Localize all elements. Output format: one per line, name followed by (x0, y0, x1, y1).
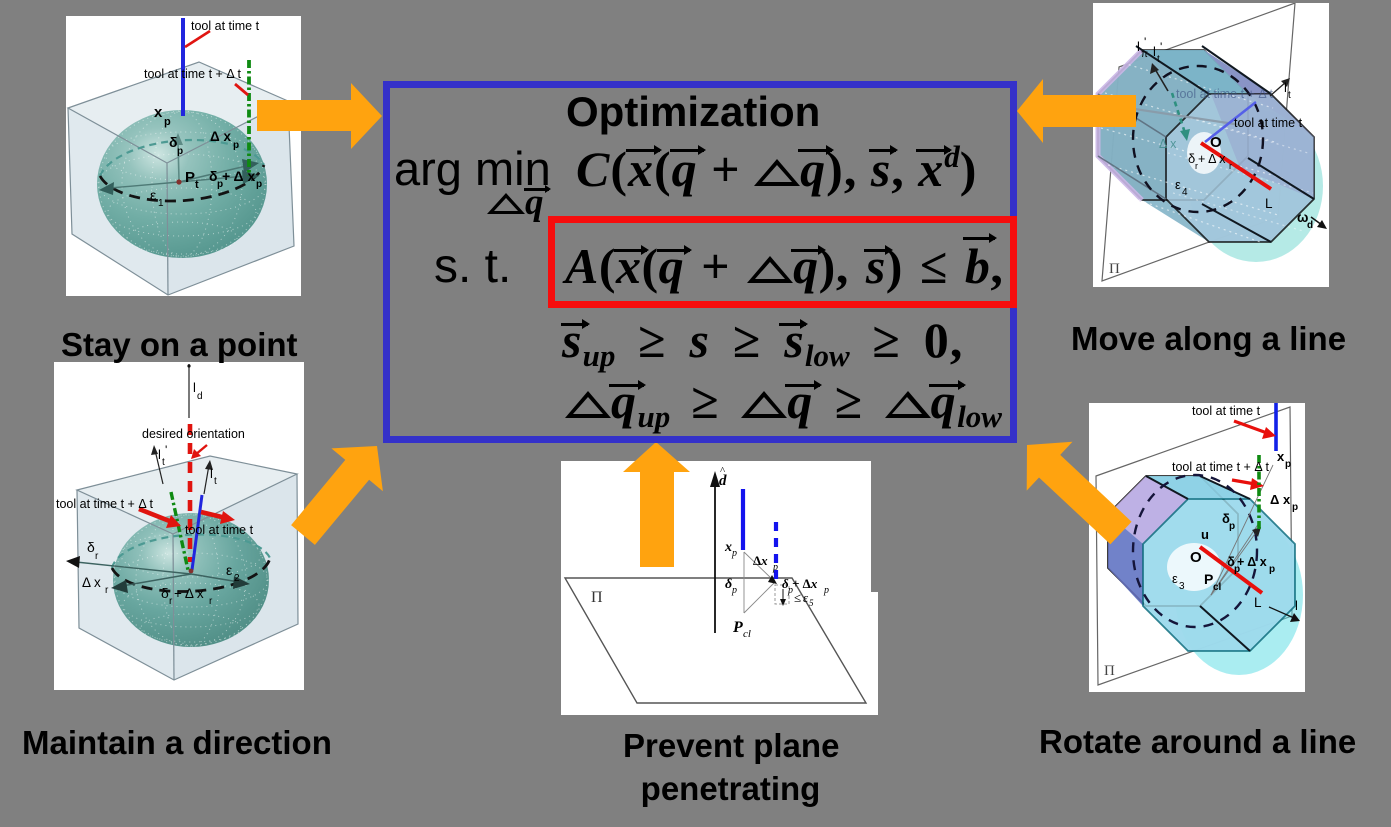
teal cylinder halo (1175, 515, 1303, 675)
stripes over front (1168, 113, 1313, 231)
green dash-dot tool line (171, 492, 188, 570)
right edge notch (871, 592, 878, 715)
thin guide lines (1211, 465, 1273, 595)
arrow up (bottom-center) (623, 442, 690, 567)
sphere (97, 110, 267, 258)
center dot (176, 179, 181, 184)
top faces (1142, 50, 1271, 94)
vector arrows over math symbols (626, 149, 660, 152)
dashed ellipse (1133, 475, 1257, 627)
blue tool line (192, 495, 202, 570)
black dashed equator ellipse front (100, 165, 264, 201)
blue tool line (1274, 403, 1278, 451)
red arrow 1 (t+dt) (139, 509, 172, 522)
small arrow near l_t (1270, 82, 1286, 96)
center dot (189, 569, 194, 574)
dashed circle (1133, 66, 1263, 212)
red pointer top (185, 31, 210, 47)
white hole (1167, 543, 1221, 591)
panel 2: maintain a direction figure (54, 362, 304, 690)
s.t. (434, 243, 511, 291)
blue tool line (181, 18, 185, 116)
blue solid line (741, 489, 745, 550)
radius arrow right (191, 574, 239, 582)
teal dashed arrow (1172, 93, 1185, 133)
radius arrow left-down (dx_r) (122, 574, 191, 586)
arrow up-right (bottom-left) (291, 446, 383, 545)
red pointer mid (235, 84, 248, 95)
caption: move along a line (1071, 322, 1346, 355)
radius arrow left (76, 562, 191, 574)
l arrow (1269, 607, 1294, 618)
blue dashed line (774, 522, 778, 583)
red dashed desired orientation line (188, 424, 193, 562)
s bounds line (562, 315, 964, 371)
plane (1102, 3, 1295, 281)
prism hull (1098, 50, 1314, 242)
cube hidden edge through sphere (167, 163, 168, 295)
cube edges (68, 62, 294, 295)
green dash-dot tool line (247, 60, 251, 176)
red arrow mid (1232, 480, 1255, 484)
plane (1096, 407, 1292, 685)
black dashed equator (112, 558, 270, 592)
radius arrow right (179, 166, 246, 182)
under: delta q vec (487, 184, 544, 221)
plane (565, 578, 866, 703)
top faces lavender (1146, 476, 1250, 499)
caption: prevent plane penetrating (623, 725, 838, 810)
caption: maintain a direction (22, 726, 332, 759)
back octagon (1108, 476, 1238, 606)
constraint line in red box (565, 241, 1003, 291)
arrow right (top-left) (257, 83, 382, 149)
cube faces (68, 62, 294, 295)
blue tool line (1205, 102, 1256, 142)
delta q bounds line (565, 376, 1002, 432)
title (566, 91, 820, 133)
arrow up-left (bottom-right) (1027, 442, 1132, 545)
connector edges (1146, 476, 1250, 651)
stripes (1101, 63, 1283, 243)
red arrow top (1234, 421, 1267, 433)
green dash-dot line (1257, 455, 1261, 529)
l_d line (188, 364, 190, 418)
radius arrow left (110, 182, 179, 188)
dark arrow up-left (1155, 69, 1168, 91)
panel 3: move along a line figure (1093, 3, 1329, 287)
front octagon (1166, 94, 1314, 242)
omega_d arrow (1311, 217, 1322, 225)
cube faces (77, 456, 298, 680)
front face upper-right tint (1211, 94, 1314, 199)
teal cylinder halo (1189, 110, 1323, 262)
teal back equator dashes (100, 140, 264, 176)
thin arrow l_t' (155, 450, 163, 484)
arrow up to sphere top (178, 142, 179, 180)
panel 5: prevent plane penetrating figure (561, 461, 878, 715)
arrow left (top-right) (1017, 79, 1136, 143)
prism hull (1108, 476, 1295, 651)
objective line (576, 141, 977, 194)
lavender rim on back octagon (1098, 50, 1142, 200)
dashed measure rect (775, 585, 789, 604)
red line L (1201, 143, 1271, 189)
red line L (1200, 547, 1262, 593)
teal back equator (112, 534, 270, 568)
red arrow 2 (t) (201, 512, 226, 518)
white hollow center (1187, 132, 1221, 174)
arg min (394, 145, 551, 192)
axis d (714, 481, 716, 633)
back octagon (1098, 50, 1248, 200)
red constraint box (548, 216, 1017, 308)
central optimization box (blue border) (383, 81, 1017, 443)
connector edges (1136, 46, 1314, 242)
cube hidden edge (173, 534, 174, 680)
caption: stay on a point (61, 328, 298, 361)
caption: rotate around a line (1039, 725, 1356, 758)
thin arrow l_t (204, 465, 209, 494)
sphere (113, 513, 269, 647)
cube edges (77, 456, 298, 680)
front octagon (1143, 499, 1295, 651)
panel 4: rotate around a line figure (1089, 403, 1305, 692)
thin triangle lines (744, 552, 774, 613)
panel 1: stay on a point figure (66, 16, 301, 296)
red arrow desired orientation pointer (195, 445, 207, 455)
